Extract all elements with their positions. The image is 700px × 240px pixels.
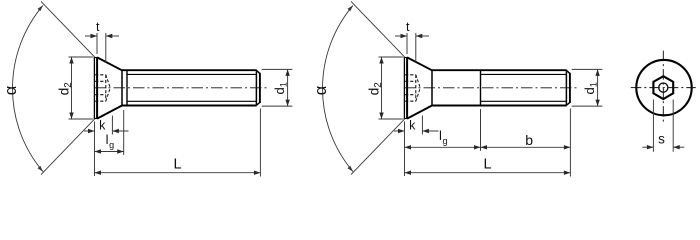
s extension line left: [652, 100, 654, 152]
screw1 shank bottom edge: [122, 105, 257, 107]
screw1 head rim bottom edge: [94, 118, 98, 120]
screw2 tip chamfer top: [567, 71, 570, 74]
screw2 head rim edge (cone start): [406, 57, 408, 119]
screw1 d1 dimension line: [287, 69, 289, 106]
screw1 t dimension line left tail: [85, 35, 97, 37]
screw1 lg extension line right: [123, 110, 125, 155]
screw2 t dimension line left tail: [395, 35, 407, 37]
screw2 thread minor diameter top line: [481, 73, 566, 75]
end view hexagon socket: [653, 76, 673, 99]
screw2 d1 dimension line: [597, 69, 599, 106]
screw1 head rim top edge: [94, 57, 98, 59]
svg-text:α: α: [2, 85, 20, 95]
screw2 shank bottom edge: [432, 105, 567, 107]
screw2 d2 extension line top: [379, 56, 403, 58]
screw1 head top face: [93, 57, 95, 119]
s dimension line left tail: [642, 146, 653, 148]
screw1 t extension line left: [96, 33, 98, 54]
screw1 socket drill point bottom hidden line: [106, 88, 111, 101]
screw1 thread minor diameter top line: [127, 73, 256, 75]
svg-text:k: k: [99, 119, 106, 133]
screw1 d1 extension line top: [262, 68, 293, 70]
screw2 socket bottom face hidden line: [415, 75, 417, 101]
end view horizontal centerline: [631, 87, 696, 89]
screw1 t dimension line right tail: [106, 35, 119, 37]
screw1 countersunk cone bottom edge: [97, 106, 122, 119]
svg-text:t: t: [96, 20, 100, 34]
screw2 angle alpha dimension arc: [323, 5, 353, 171]
screw1 d1 extension line bottom: [262, 105, 293, 107]
screw2 socket hidden line inner top: [405, 80, 416, 82]
screw1 lg dimension line: [95, 151, 124, 153]
screw2 head face extension line below: [404, 122, 406, 177]
screw1 k dimension line right tail: [112, 130, 128, 132]
screw2 thread minor diameter bottom line: [481, 100, 566, 102]
screw2 k extension line right: [421, 116, 423, 135]
screw1 k dimension line left tail: [84, 130, 95, 132]
screw2 L dimension line: [405, 172, 571, 174]
screw1 shank top edge: [122, 69, 257, 71]
screw1 tip end face: [259, 73, 261, 103]
screw1 socket bottom face hidden line: [105, 75, 107, 101]
screw2 centerline: [404, 87, 577, 89]
screw2 tip chamfer bottom: [567, 103, 570, 106]
screw2 thread start line: [480, 71, 482, 105]
screw1 d2 extension line top: [69, 56, 93, 58]
screw2 t dimension line right tail: [416, 35, 429, 37]
screw2 d1 extension line top: [572, 68, 603, 70]
screw2 countersunk cone bottom edge: [407, 106, 432, 119]
screw2 shank top edge: [432, 69, 567, 71]
svg-text:s: s: [658, 132, 665, 147]
screw2 socket hidden line inner bottom: [405, 94, 416, 96]
svg-text:g: g: [442, 136, 447, 146]
screw2 angle alpha extension line upper: [351, 1, 405, 57]
end view drill pilot circle: [659, 83, 668, 92]
screw2 socket hidden line outer bottom: [405, 100, 416, 102]
screw1 head face extension line below: [94, 122, 96, 177]
screw2 b dimension line: [481, 146, 571, 148]
screw1 socket drill point top hidden line: [106, 75, 111, 88]
screw2 k dimension line left tail: [394, 130, 405, 132]
screw2 socket drill point bottom hidden line: [416, 88, 421, 101]
end view vertical centerline: [662, 51, 664, 125]
svg-text:k: k: [409, 119, 416, 133]
screw1 countersunk cone top edge: [97, 57, 122, 70]
screw1 d2 dimension line: [71, 57, 73, 119]
screw2 tip end face: [569, 73, 571, 103]
screw1 tip chamfer edge line: [255, 71, 257, 104]
screw1 L extension line right: [259, 109, 261, 177]
screw2 cone-to-shank junction line: [431, 70, 433, 105]
screw2 head rim bottom edge: [404, 118, 408, 120]
screw1 alpha arc arrowhead lower: [38, 166, 44, 172]
end view outer circle (head outline): [636, 60, 691, 115]
screw1 angle alpha dimension arc: [13, 5, 43, 171]
screw2 k dimension line right tail: [422, 130, 438, 132]
screw1 alpha arc arrowhead upper: [38, 5, 44, 11]
s extension line right: [672, 100, 674, 152]
screw1 socket hidden line inner top: [95, 80, 106, 82]
screw1 centerline: [94, 87, 267, 89]
svg-text:b: b: [525, 132, 533, 148]
screw2 d2 dimension line: [381, 57, 383, 119]
screw2 d2 extension line bottom: [379, 118, 403, 120]
screw1 socket hidden line outer bottom: [95, 100, 106, 102]
screw1 L dimension line: [95, 172, 261, 174]
screw2 tip chamfer edge line: [565, 71, 567, 104]
screw2 alpha arc arrowhead upper: [348, 5, 354, 11]
screw1 socket hidden line outer top: [95, 74, 106, 76]
screw1 cone-to-shank junction line: [121, 70, 123, 105]
svg-text:α: α: [312, 85, 330, 95]
screw1 t extension line right: [105, 33, 107, 62]
screw1 k extension line right: [111, 116, 113, 135]
screw2 socket hidden line outer top: [405, 74, 416, 76]
screw1 tip chamfer bottom: [257, 103, 260, 106]
screw1 thread start line: [126, 71, 128, 105]
screw2 t extension line left: [406, 33, 408, 54]
screw1 tip chamfer top: [257, 71, 260, 74]
screw2 socket drill point top hidden line: [416, 75, 421, 88]
screw2 alpha arc arrowhead lower: [348, 166, 354, 172]
screw2 countersunk cone top edge: [407, 57, 432, 70]
screw2 head top face: [403, 57, 405, 119]
svg-text:g: g: [109, 140, 114, 150]
svg-text:L: L: [173, 156, 181, 172]
svg-text:t: t: [406, 20, 410, 34]
screw2 t extension line right: [415, 33, 417, 62]
screw1 d2 extension line bottom: [69, 118, 93, 120]
screw1 socket hidden line inner bottom: [95, 94, 106, 96]
screw1 angle alpha extension line upper: [41, 1, 95, 57]
screw2 lg extension line right: [480, 110, 482, 151]
s dimension line right tail: [673, 146, 684, 148]
screw2 L extension line right: [569, 109, 571, 177]
screw2 head rim top edge: [404, 57, 408, 59]
screw2 b left extension line (thread start): [480, 109, 482, 151]
screw1 angle alpha extension line lower: [41, 119, 95, 175]
screw2 lg dimension line: [405, 146, 481, 148]
svg-text:L: L: [483, 156, 491, 172]
screw2 d1 extension line bottom: [572, 105, 603, 107]
screw1 thread minor diameter bottom line: [127, 100, 256, 102]
screw2 angle alpha extension line lower: [351, 119, 405, 175]
screw1 head rim edge (cone start): [96, 57, 98, 119]
